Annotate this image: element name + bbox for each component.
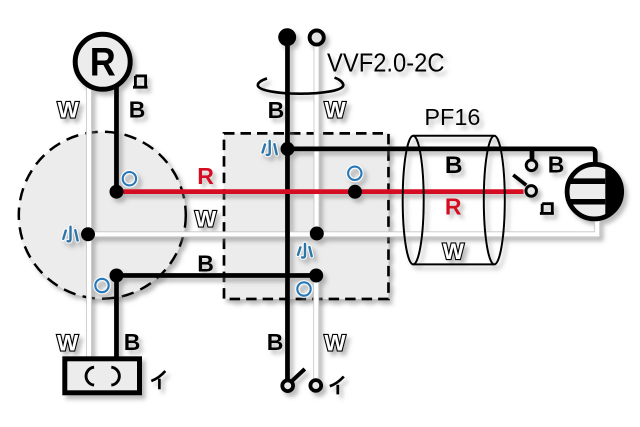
- svg-text:W: W: [57, 330, 79, 355]
- svg-text:R: R: [445, 194, 462, 220]
- svg-text:B: B: [124, 329, 141, 355]
- wire W source vertical: [314, 42, 320, 234]
- wire B fixture lead: [114, 276, 119, 358]
- svg-text:W: W: [195, 207, 217, 232]
- switch ro terminal 1: [526, 160, 537, 171]
- wire W switch-i return vertical: [313, 276, 319, 380]
- svg-text:PF16: PF16: [424, 104, 480, 130]
- label small-sleeve mark 3 (switch box mid): [298, 244, 312, 258]
- node joint red mid switch box: [348, 185, 362, 199]
- switch i lever: [292, 369, 305, 381]
- node joint switch-i return: [309, 269, 323, 283]
- wire W neutral horizontal to outlet: [89, 219, 597, 234]
- svg-text:R: R: [90, 40, 116, 84]
- paren right: [111, 367, 119, 385]
- wire B bottom horizontal (fixture to switch return joint): [117, 273, 317, 278]
- svg-text:B: B: [548, 152, 565, 178]
- wire B source vertical: [285, 37, 290, 379]
- node joint neutral left box: [81, 227, 95, 241]
- switch i terminal 2: [310, 380, 321, 391]
- node joint neutral switch box: [310, 227, 324, 241]
- svg-text:W: W: [324, 330, 346, 355]
- svg-text:B: B: [268, 97, 285, 123]
- svg-text:B: B: [267, 329, 284, 355]
- svg-text:B: B: [445, 152, 463, 179]
- connector ring mark 2: [95, 279, 108, 292]
- wire B top horizontal to outlet: [288, 149, 596, 166]
- lamp receptacle R: [75, 34, 130, 89]
- svg-text:R: R: [197, 163, 214, 189]
- connector ring mark 4: [297, 282, 310, 295]
- label ro (katakana) at lamp: [133, 76, 148, 87]
- svg-text:W: W: [443, 239, 465, 264]
- conduit PF16 cylinder: [403, 136, 505, 265]
- label small-sleeve mark 1 (left box): [63, 227, 77, 242]
- outlet (receptacle) symbol: [567, 164, 622, 219]
- svg-text:B: B: [197, 251, 214, 277]
- label i (katakana) at fixture: [151, 371, 165, 389]
- node joint B tap switch box: [281, 142, 295, 156]
- switch box (dashed rectangle): [224, 133, 389, 299]
- switch ro lever: [513, 175, 526, 185]
- switch ro terminal 2: [526, 186, 537, 197]
- svg-text:VVF2.0-2C: VVF2.0-2C: [327, 48, 445, 78]
- connector ring mark 3: [348, 167, 361, 180]
- wire R switched line: [117, 189, 524, 194]
- switch i terminal 1: [282, 380, 293, 391]
- wire W lamp-to-fixture (white vertical left): [86, 70, 92, 357]
- wire B stub to switch ro: [530, 149, 535, 159]
- svg-text:W: W: [324, 98, 346, 123]
- node joint fixture black left box: [110, 269, 124, 283]
- label ro (katakana) at switch: [540, 204, 554, 214]
- label i (katakana) at switch: [330, 377, 344, 395]
- source terminal B: [278, 28, 296, 46]
- source terminal W: [310, 30, 324, 44]
- fixture (ceiling rose) box: [65, 359, 140, 393]
- node joint lamp black to red: [110, 185, 124, 199]
- connector ring mark 1: [123, 172, 136, 185]
- cable loop marker: [258, 78, 343, 94]
- paren left: [86, 367, 94, 385]
- svg-text:B: B: [129, 97, 146, 123]
- svg-text:W: W: [57, 97, 79, 122]
- wire B lamp lead: [114, 70, 119, 192]
- outlet box (dashed circle): [19, 132, 186, 299]
- label small-sleeve mark 2 (switch box top): [263, 141, 277, 155]
